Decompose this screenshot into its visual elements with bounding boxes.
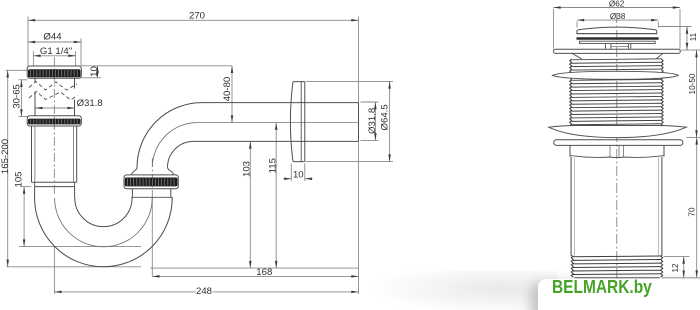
- svg-text:270: 270: [189, 10, 205, 21]
- svg-text:30-65: 30-65: [11, 84, 22, 109]
- svg-text:Ø44: Ø44: [43, 32, 62, 43]
- svg-text:12: 12: [671, 263, 680, 273]
- svg-text:70: 70: [688, 207, 697, 217]
- svg-text:G1 1/4": G1 1/4": [40, 46, 72, 57]
- svg-text:168: 168: [256, 267, 272, 278]
- svg-text:Ø62: Ø62: [609, 0, 625, 9]
- svg-text:Ø31.8: Ø31.8: [77, 98, 103, 109]
- svg-text:248: 248: [196, 286, 212, 297]
- svg-text:Ø64.5: Ø64.5: [380, 104, 391, 130]
- svg-text:103: 103: [242, 161, 253, 177]
- svg-text:10: 10: [89, 66, 100, 77]
- svg-text:40-80: 40-80: [222, 77, 233, 102]
- svg-text:105: 105: [14, 171, 25, 187]
- svg-text:Ø38: Ø38: [610, 12, 626, 21]
- svg-text:165-200: 165-200: [0, 139, 11, 174]
- svg-text:11: 11: [689, 32, 698, 41]
- svg-text:115: 115: [268, 158, 279, 173]
- svg-text:Ø31.8: Ø31.8: [367, 108, 378, 134]
- svg-text:10-50: 10-50: [688, 73, 697, 94]
- svg-text:10: 10: [293, 169, 304, 180]
